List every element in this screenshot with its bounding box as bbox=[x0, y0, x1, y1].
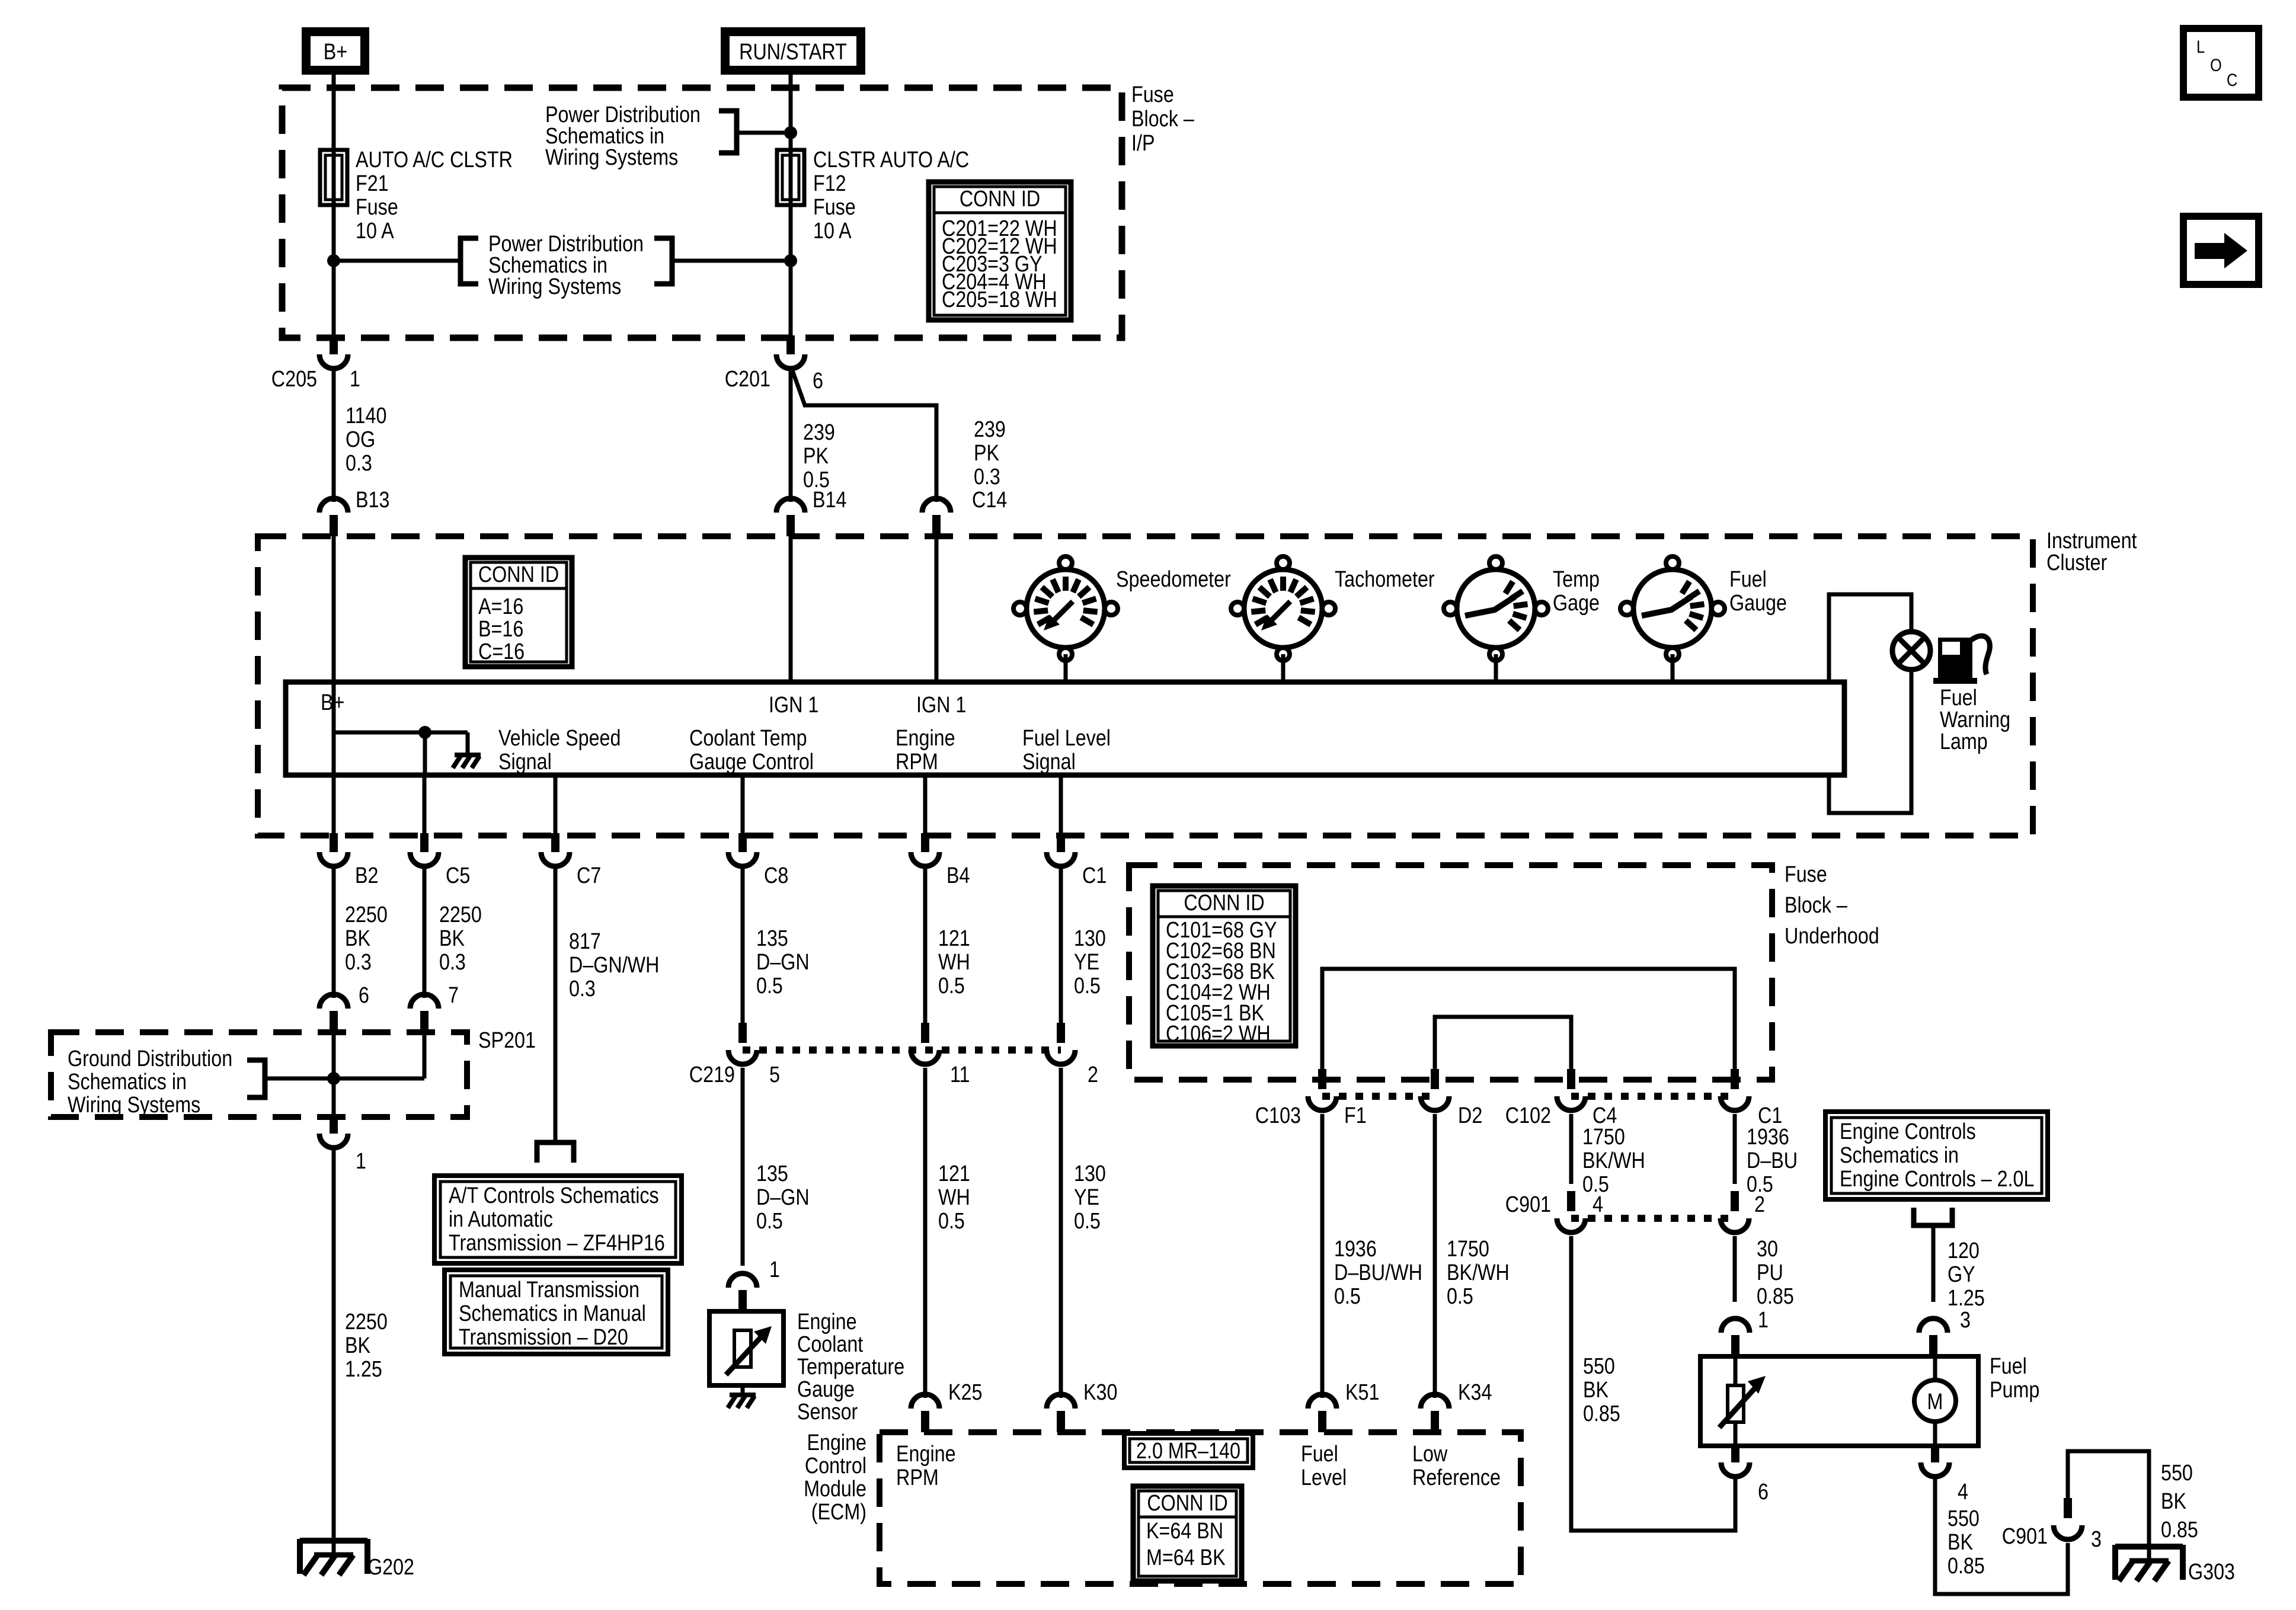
svg-text:Module: Module bbox=[804, 1477, 866, 1502]
fork to A/T controls bbox=[537, 1142, 574, 1163]
lamp loop wire bbox=[1829, 594, 1911, 682]
connector ECM K51 bbox=[1308, 1394, 1336, 1432]
gauge speedometer bbox=[1013, 556, 1118, 661]
svg-text:PU: PU bbox=[1757, 1260, 1783, 1285]
fuse F21 bbox=[320, 150, 347, 205]
svg-text:A/T Controls Schematics: A/T Controls Schematics bbox=[449, 1183, 659, 1208]
svg-text:AUTO A/C CLSTR: AUTO A/C CLSTR bbox=[356, 148, 513, 172]
svg-text:BK/WH: BK/WH bbox=[1582, 1148, 1645, 1173]
svg-text:Schematics in: Schematics in bbox=[68, 1070, 187, 1094]
svg-text:3: 3 bbox=[2091, 1527, 2102, 1552]
svg-text:Gage: Gage bbox=[1553, 591, 1600, 616]
svg-text:Underhood: Underhood bbox=[1785, 924, 1879, 949]
wire underhood bus F1-C1 bbox=[1322, 969, 1735, 1074]
wire C14 into cluster bus bbox=[935, 536, 939, 682]
svg-text:130: 130 bbox=[1074, 1161, 1106, 1186]
svg-text:C1: C1 bbox=[1082, 863, 1107, 888]
svg-text:2.0 MR–140: 2.0 MR–140 bbox=[1136, 1439, 1240, 1464]
fuel warning lamp bbox=[1892, 632, 1930, 670]
svg-text:0.85: 0.85 bbox=[1948, 1554, 1985, 1579]
wire pin6 through splice bbox=[332, 1032, 336, 1117]
svg-text:Pump: Pump bbox=[1990, 1378, 2039, 1403]
wire B2 to SP201 bbox=[332, 866, 336, 998]
svg-text:F1: F1 bbox=[1344, 1103, 1367, 1128]
svg-text:0.5: 0.5 bbox=[1447, 1284, 1473, 1309]
bracket upper power distribution bbox=[719, 111, 737, 153]
wire C1 to C901-2 bbox=[1733, 1114, 1737, 1184]
fuel pump box bbox=[1700, 1356, 1978, 1446]
wire C901-2 to pump pin 1 30 PU 0.85 bbox=[1733, 1236, 1737, 1302]
connector C901 pin 3 bbox=[2054, 1498, 2082, 1539]
svg-text:YE: YE bbox=[1074, 950, 1099, 975]
svg-text:BK: BK bbox=[1583, 1378, 1609, 1403]
svg-text:Ground Distribution: Ground Distribution bbox=[68, 1046, 232, 1071]
svg-text:0.5: 0.5 bbox=[1074, 1209, 1101, 1234]
svg-text:in Automatic: in Automatic bbox=[449, 1207, 553, 1232]
svg-text:B+: B+ bbox=[324, 40, 347, 65]
svg-text:Temperature: Temperature bbox=[797, 1355, 904, 1379]
svg-text:K25: K25 bbox=[948, 1380, 982, 1405]
svg-text:Manual Transmission: Manual Transmission bbox=[459, 1278, 639, 1302]
connector B13 bbox=[319, 498, 348, 536]
svg-text:0.5: 0.5 bbox=[1074, 974, 1101, 998]
wire 239 PK 0.3 branch to C14 bbox=[792, 370, 936, 502]
svg-text:O: O bbox=[2210, 55, 2222, 75]
svg-text:239: 239 bbox=[803, 420, 835, 445]
svg-text:2250: 2250 bbox=[439, 902, 482, 927]
svg-text:BK/WH: BK/WH bbox=[1447, 1260, 1510, 1285]
connector fuel pump pin 4 bbox=[1921, 1443, 1949, 1477]
wire temp gage to bus bbox=[1494, 654, 1498, 682]
svg-text:Gauge Control: Gauge Control bbox=[689, 750, 814, 774]
svg-text:RPM: RPM bbox=[896, 750, 938, 774]
svg-text:PK: PK bbox=[974, 441, 1000, 466]
info box Manual Transmission bbox=[445, 1270, 668, 1354]
svg-text:IGN 1: IGN 1 bbox=[769, 693, 818, 718]
svg-text:121: 121 bbox=[938, 926, 970, 951]
wire internal to C5 bbox=[423, 732, 427, 775]
svg-text:550: 550 bbox=[2161, 1461, 2193, 1486]
connector C901 pin 2 bbox=[1721, 1191, 1749, 1233]
wire F12 to C201 bbox=[789, 205, 793, 338]
connector table CONN ID ECM bbox=[1133, 1486, 1242, 1581]
svg-text:G202: G202 bbox=[367, 1555, 414, 1580]
svg-text:4: 4 bbox=[1958, 1480, 1968, 1505]
connector pin D2 bbox=[1421, 1069, 1449, 1110]
fuse block I/P dashed box bbox=[282, 88, 1122, 338]
fuel pump icon bbox=[1933, 636, 1990, 684]
svg-text:6: 6 bbox=[1758, 1480, 1769, 1505]
svg-text:Engine Controls – 2.0L: Engine Controls – 2.0L bbox=[1840, 1167, 2034, 1192]
wire pin7 to splice bbox=[423, 1032, 427, 1078]
svg-text:GY: GY bbox=[1948, 1262, 1975, 1287]
svg-text:Block –: Block – bbox=[1131, 107, 1194, 132]
bracket left lower power distribution bbox=[461, 238, 478, 284]
svg-text:B13: B13 bbox=[356, 488, 389, 513]
svg-text:C205: C205 bbox=[271, 367, 317, 392]
svg-text:D–GN: D–GN bbox=[756, 950, 810, 975]
svg-text:Gauge: Gauge bbox=[797, 1377, 855, 1402]
wire C901-4 to pump pin 6 550 BK 0.85 bbox=[1571, 1236, 1735, 1531]
wire bracket to F12 tap bbox=[672, 259, 791, 263]
svg-text:F21: F21 bbox=[356, 171, 389, 196]
svg-text:Control: Control bbox=[805, 1454, 866, 1478]
svg-text:IGN 1: IGN 1 bbox=[916, 693, 966, 718]
svg-text:CONN ID: CONN ID bbox=[478, 562, 559, 587]
svg-text:PK: PK bbox=[803, 444, 829, 469]
svg-text:BK: BK bbox=[439, 926, 465, 951]
connector C219 pin 5 bbox=[728, 1023, 757, 1064]
svg-text:1.25: 1.25 bbox=[345, 1357, 382, 1382]
gauge fuel gauge bbox=[1620, 556, 1725, 661]
svg-text:(ECM): (ECM) bbox=[811, 1500, 866, 1525]
svg-text:D–BU/WH: D–BU/WH bbox=[1334, 1260, 1422, 1285]
svg-text:0.5: 0.5 bbox=[756, 974, 783, 998]
svg-text:Block –: Block – bbox=[1785, 893, 1847, 918]
connector C103 pin F1 bbox=[1308, 1069, 1336, 1110]
svg-text:Fuse: Fuse bbox=[813, 195, 856, 220]
svg-text:K51: K51 bbox=[1345, 1380, 1379, 1405]
svg-text:B2: B2 bbox=[355, 863, 378, 888]
connector ECM K30 bbox=[1047, 1394, 1075, 1432]
svg-text:0.85: 0.85 bbox=[2161, 1518, 2198, 1542]
connector table CONN ID I/P bbox=[929, 182, 1071, 320]
svg-text:130: 130 bbox=[1074, 926, 1106, 951]
svg-text:Sensor: Sensor bbox=[797, 1400, 858, 1425]
svg-text:1750: 1750 bbox=[1447, 1237, 1489, 1262]
connector C201 pin 6 bbox=[776, 335, 805, 369]
wire C219-5 to ECT sensor bbox=[741, 1068, 745, 1266]
svg-text:C205=18 WH: C205=18 WH bbox=[942, 287, 1057, 312]
wire bus to B4 bbox=[923, 775, 928, 836]
wire B4 to C219 bbox=[923, 866, 928, 1023]
svg-text:L: L bbox=[2196, 37, 2205, 56]
wire internal to chassis ground bbox=[466, 732, 470, 753]
svg-text:0.3: 0.3 bbox=[345, 950, 372, 975]
svg-text:C5: C5 bbox=[446, 863, 470, 888]
wire 2250 BK 1.25 to G202 bbox=[332, 1148, 336, 1539]
svg-text:RUN/START: RUN/START bbox=[739, 40, 847, 65]
svg-text:550: 550 bbox=[1583, 1354, 1615, 1379]
svg-text:Signal: Signal bbox=[498, 750, 552, 774]
svg-text:CLSTR AUTO A/C: CLSTR AUTO A/C bbox=[813, 148, 969, 172]
connector B2 bbox=[319, 833, 348, 866]
svg-text:C8: C8 bbox=[764, 863, 788, 888]
connector B4 bbox=[911, 833, 939, 866]
ground G202 bbox=[300, 1539, 367, 1575]
wire D2 to K34 1750 BK/WH bbox=[1433, 1114, 1437, 1398]
svg-text:I/P: I/P bbox=[1131, 131, 1155, 156]
info box 2.0 MR-140 bbox=[1124, 1433, 1253, 1468]
junction F12 tap bbox=[784, 254, 797, 267]
svg-text:0.5: 0.5 bbox=[1334, 1284, 1361, 1309]
wire C4 to C901-4 bbox=[1569, 1114, 1574, 1184]
wire F21 tap to bracket bbox=[334, 259, 461, 263]
svg-text:1140: 1140 bbox=[346, 404, 386, 428]
svg-text:C7: C7 bbox=[577, 863, 601, 888]
svg-text:Engine: Engine bbox=[896, 1442, 956, 1467]
svg-text:0.5: 0.5 bbox=[938, 1209, 965, 1234]
svg-text:Low: Low bbox=[1412, 1442, 1448, 1467]
svg-text:0.3: 0.3 bbox=[569, 977, 596, 1001]
wire 239 PK 0.5 to B14 bbox=[789, 369, 793, 502]
svg-text:Fuel: Fuel bbox=[1729, 567, 1767, 592]
svg-text:0.85: 0.85 bbox=[1583, 1401, 1620, 1426]
wire C8 to C219 bbox=[741, 866, 745, 1023]
engine control module dashed box bbox=[880, 1432, 1521, 1584]
svg-text:Transmission – D20: Transmission – D20 bbox=[459, 1325, 628, 1350]
svg-text:BK: BK bbox=[345, 1333, 371, 1358]
svg-text:Coolant: Coolant bbox=[797, 1332, 863, 1357]
connector ECM K34 bbox=[1421, 1394, 1449, 1432]
svg-text:C14: C14 bbox=[972, 488, 1007, 513]
wire B4 to K25 bbox=[923, 1068, 928, 1398]
svg-text:Fuse: Fuse bbox=[1785, 862, 1827, 887]
wire C5 to SP201 bbox=[423, 866, 427, 998]
wire C1 to K30 bbox=[1059, 1068, 1063, 1398]
fuse block underhood dashed box bbox=[1129, 865, 1772, 1080]
svg-text:0.3: 0.3 bbox=[439, 950, 466, 975]
fuse F12 bbox=[777, 150, 804, 205]
connector C102 pin C4 bbox=[1557, 1069, 1585, 1110]
wire bus to B2 bbox=[332, 775, 336, 836]
svg-text:3: 3 bbox=[1960, 1308, 1971, 1333]
connector row dotted line C103-D2 bbox=[1322, 1093, 1435, 1100]
svg-text:C103: C103 bbox=[1255, 1103, 1301, 1128]
svg-text:6: 6 bbox=[359, 983, 369, 1008]
svg-text:Engine Controls: Engine Controls bbox=[1840, 1119, 1976, 1144]
svg-text:C102: C102 bbox=[1505, 1103, 1551, 1128]
connector C901 pin 4 bbox=[1557, 1191, 1585, 1233]
svg-text:10 A: 10 A bbox=[356, 219, 394, 244]
svg-text:G303: G303 bbox=[2188, 1560, 2235, 1585]
junction splice SP201 bbox=[327, 1072, 340, 1085]
engine coolant temperature gauge sensor bbox=[709, 1311, 784, 1385]
fuel pump motor M bbox=[1914, 1356, 1956, 1446]
connector B14 bbox=[776, 498, 805, 536]
svg-text:C201: C201 bbox=[725, 367, 770, 392]
connector fuel pump pin 3 bbox=[1919, 1318, 1948, 1356]
svg-text:1750: 1750 bbox=[1582, 1125, 1625, 1150]
node B+ feed bbox=[302, 27, 369, 75]
wire fuel gauge to bus bbox=[1671, 654, 1675, 682]
fork from Engine Controls bbox=[1914, 1208, 1952, 1225]
connector row dotted line C219 bbox=[743, 1046, 1061, 1054]
svg-text:RPM: RPM bbox=[896, 1465, 939, 1490]
connector C5 bbox=[410, 833, 439, 866]
ground G303 bbox=[2115, 1545, 2183, 1581]
svg-text:135: 135 bbox=[756, 926, 788, 951]
svg-text:2: 2 bbox=[1754, 1192, 1765, 1217]
wire B14 into cluster bus bbox=[789, 536, 793, 682]
svg-text:C901: C901 bbox=[1505, 1192, 1551, 1217]
wire bus to C1 bbox=[1059, 775, 1063, 836]
wire bracket to RUN/START feed bbox=[737, 131, 791, 135]
chassis ground internal bbox=[453, 755, 481, 768]
svg-text:WH: WH bbox=[938, 1185, 970, 1210]
node RUN/START feed bbox=[721, 27, 865, 75]
connector table CONN ID underhood bbox=[1153, 886, 1296, 1046]
wire underhood bus D2-C4 bbox=[1435, 1017, 1571, 1074]
wire C7 to fork bbox=[554, 866, 558, 1140]
svg-text:135: 135 bbox=[756, 1161, 788, 1186]
svg-text:Reference: Reference bbox=[1412, 1465, 1501, 1490]
svg-text:CONN ID: CONN ID bbox=[1184, 891, 1264, 916]
svg-text:4: 4 bbox=[1593, 1192, 1603, 1217]
wire lamp to bus bottom bbox=[1829, 670, 1911, 813]
connector row dotted line C901 bbox=[1571, 1215, 1735, 1222]
connector C1 bbox=[1047, 833, 1075, 866]
svg-text:D–GN/WH: D–GN/WH bbox=[569, 953, 659, 978]
svg-text:550: 550 bbox=[1948, 1506, 1980, 1531]
wire F21 to C205 bbox=[332, 205, 336, 338]
instrument cluster bus bar bbox=[286, 682, 1844, 775]
svg-text:Fuel: Fuel bbox=[1990, 1354, 2027, 1379]
svg-text:Coolant Temp: Coolant Temp bbox=[689, 726, 807, 751]
svg-text:0.85: 0.85 bbox=[1757, 1284, 1794, 1309]
svg-text:Instrument: Instrument bbox=[2046, 529, 2137, 553]
svg-text:F12: F12 bbox=[813, 171, 846, 196]
svg-text:Cluster: Cluster bbox=[2046, 550, 2108, 575]
svg-text:2: 2 bbox=[1088, 1062, 1098, 1087]
svg-text:B14: B14 bbox=[813, 488, 846, 513]
wire bus to C5 bbox=[423, 775, 427, 836]
bracket right lower power distribution bbox=[654, 238, 672, 284]
svg-text:Engine: Engine bbox=[807, 1430, 866, 1455]
svg-text:Vehicle Speed: Vehicle Speed bbox=[498, 726, 621, 751]
connector SP201 pin 1 bbox=[319, 1115, 348, 1148]
junction RUN/START tap bbox=[784, 126, 797, 139]
svg-text:OG: OG bbox=[346, 427, 375, 452]
wire RUN/START to F12 bbox=[789, 75, 793, 150]
wire C901-3 to G303 550 BK 0.85 bbox=[2068, 1451, 2149, 1548]
instrument cluster dashed box bbox=[258, 536, 2033, 836]
svg-text:120: 120 bbox=[1948, 1238, 1980, 1263]
bracket ground distribution bbox=[247, 1060, 265, 1097]
svg-text:Signal: Signal bbox=[1022, 750, 1076, 774]
arrow continuation box bbox=[2183, 216, 2259, 284]
svg-text:Fuel: Fuel bbox=[1301, 1442, 1338, 1467]
junction F21 tap bbox=[327, 254, 340, 267]
wire F1 to K51 1936 D-BU/WH bbox=[1320, 1114, 1325, 1398]
svg-text:SP201: SP201 bbox=[478, 1028, 536, 1053]
svg-text:K30: K30 bbox=[1083, 1380, 1117, 1405]
svg-text:2250: 2250 bbox=[345, 1310, 388, 1334]
svg-text:11: 11 bbox=[950, 1062, 970, 1087]
svg-text:121: 121 bbox=[938, 1161, 970, 1186]
svg-text:10 A: 10 A bbox=[813, 219, 852, 244]
connector ECM K25 bbox=[911, 1394, 939, 1432]
svg-text:0.5: 0.5 bbox=[756, 1209, 783, 1234]
gauge temp gage bbox=[1444, 556, 1548, 661]
svg-text:0.3: 0.3 bbox=[974, 465, 1000, 489]
svg-text:Lamp: Lamp bbox=[1940, 729, 1988, 754]
connector SP201 pin 7 bbox=[410, 994, 439, 1032]
svg-text:WH: WH bbox=[938, 950, 970, 975]
wire B+ to F21 bbox=[332, 75, 336, 150]
svg-text:Schematics in Manual: Schematics in Manual bbox=[459, 1301, 646, 1326]
svg-text:D–BU: D–BU bbox=[1747, 1148, 1798, 1173]
chassis ground ECT sensor bbox=[741, 1385, 745, 1394]
svg-text:Transmission – ZF4HP16: Transmission – ZF4HP16 bbox=[449, 1231, 665, 1256]
gauge tachometer bbox=[1231, 556, 1335, 661]
svg-text:Tachometer: Tachometer bbox=[1335, 567, 1435, 592]
svg-text:5: 5 bbox=[769, 1062, 780, 1087]
svg-text:Gauge: Gauge bbox=[1729, 591, 1787, 616]
wire speedometer to bus bbox=[1064, 654, 1068, 682]
connector table CONN ID cluster bbox=[465, 558, 572, 667]
svg-text:Engine: Engine bbox=[896, 726, 955, 751]
svg-text:817: 817 bbox=[569, 929, 601, 954]
svg-text:CONN ID: CONN ID bbox=[960, 187, 1040, 212]
svg-text:Speedometer: Speedometer bbox=[1116, 567, 1231, 592]
connector C219 pin 2 bbox=[1047, 1023, 1075, 1064]
svg-text:1: 1 bbox=[769, 1257, 780, 1282]
svg-text:B4: B4 bbox=[946, 863, 970, 888]
svg-text:Wiring Systems: Wiring Systems bbox=[488, 274, 621, 299]
wire tachometer to bus bbox=[1281, 654, 1285, 682]
svg-text:1: 1 bbox=[1758, 1308, 1769, 1333]
fuel level sender bbox=[1719, 1356, 1766, 1446]
connector underhood pin C1 bbox=[1721, 1069, 1749, 1110]
svg-text:Fuel: Fuel bbox=[1940, 686, 1977, 710]
svg-text:BK: BK bbox=[1948, 1530, 1974, 1555]
connector fuel pump pin 6 bbox=[1721, 1443, 1750, 1477]
svg-text:B=16: B=16 bbox=[478, 617, 523, 642]
svg-text:1936: 1936 bbox=[1334, 1237, 1377, 1262]
wire C1 to C219 bbox=[1059, 866, 1063, 1023]
svg-text:M=64 BK: M=64 BK bbox=[1146, 1545, 1226, 1570]
svg-text:Wiring Systems: Wiring Systems bbox=[545, 145, 678, 170]
connector C14 bbox=[922, 498, 951, 536]
svg-text:Schematics in: Schematics in bbox=[1840, 1143, 1959, 1168]
connector row dotted line C102-C1 bbox=[1571, 1093, 1735, 1100]
svg-text:C901: C901 bbox=[2002, 1524, 2048, 1549]
connector C7 bbox=[541, 833, 570, 866]
wire 1140 OG 0.3 bbox=[332, 369, 336, 502]
info box A/T Controls bbox=[434, 1176, 682, 1263]
wire 120 GY 1.25 to pump pin 3 bbox=[1932, 1225, 1936, 1302]
svg-text:D–GN: D–GN bbox=[756, 1185, 810, 1210]
svg-text:K34: K34 bbox=[1458, 1380, 1492, 1405]
svg-text:Temp: Temp bbox=[1553, 567, 1600, 592]
svg-text:0.5: 0.5 bbox=[938, 974, 965, 998]
wire bus to C7 bbox=[554, 775, 558, 836]
LOC reference box bbox=[2183, 28, 2259, 97]
svg-text:7: 7 bbox=[448, 983, 459, 1008]
svg-text:K=64 BN: K=64 BN bbox=[1146, 1519, 1223, 1544]
svg-text:CONN ID: CONN ID bbox=[1147, 1491, 1227, 1516]
svg-text:BK: BK bbox=[2161, 1489, 2187, 1514]
connector ECT pin 1 bbox=[728, 1273, 757, 1311]
svg-text:239: 239 bbox=[974, 417, 1006, 442]
svg-text:Fuse: Fuse bbox=[1131, 82, 1174, 107]
svg-text:C=16: C=16 bbox=[478, 639, 525, 664]
connector C205 pin 1 bbox=[319, 335, 348, 369]
connector C219 pin 11 bbox=[911, 1023, 939, 1064]
connector fuel pump pin 1 bbox=[1721, 1318, 1750, 1356]
svg-text:Level: Level bbox=[1301, 1465, 1347, 1490]
svg-text:A=16: A=16 bbox=[478, 594, 523, 619]
svg-text:C219: C219 bbox=[689, 1062, 735, 1087]
svg-text:Wiring Systems: Wiring Systems bbox=[68, 1093, 200, 1118]
svg-text:6: 6 bbox=[813, 369, 823, 393]
svg-text:Fuel Level: Fuel Level bbox=[1022, 726, 1111, 751]
svg-text:1.25: 1.25 bbox=[1948, 1286, 1985, 1311]
wire bus to C8 bbox=[741, 775, 745, 836]
splice SP201 dashed box bbox=[51, 1032, 467, 1117]
connector SP201 pin 6 bbox=[319, 994, 348, 1032]
